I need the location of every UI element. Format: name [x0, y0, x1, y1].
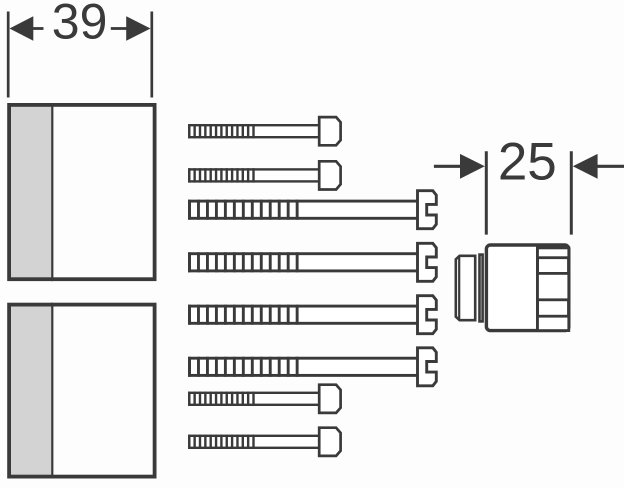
svg-text:39: 39	[52, 0, 108, 50]
svg-text:25: 25	[498, 133, 557, 192]
